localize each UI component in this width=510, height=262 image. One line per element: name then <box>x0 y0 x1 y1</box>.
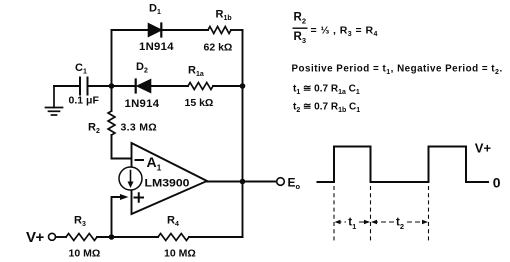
wire D2 to R1a <box>151 85 189 87</box>
wire top rail middle segment <box>161 29 208 31</box>
svg-text:LM3900: LM3900 <box>145 178 190 190</box>
wire output to Eo terminal <box>207 181 277 183</box>
wire right rail <box>242 30 244 237</box>
waveform label t1 <box>348 217 356 232</box>
node A junction dot <box>109 83 115 89</box>
svg-text:3.3 MΩ: 3.3 MΩ <box>121 122 157 134</box>
svg-text:62 kΩ: 62 kΩ <box>204 42 233 54</box>
junction dot output/right rail <box>240 179 246 185</box>
resistor R4 <box>158 215 196 260</box>
svg-text:V+: V+ <box>26 229 45 246</box>
op-amp label LM3900 <box>145 178 190 190</box>
wire bottom rail right <box>189 236 243 238</box>
waveform square wave trace <box>317 147 490 183</box>
diode D2 <box>125 61 160 110</box>
svg-text:1N914: 1N914 <box>139 41 174 53</box>
terminal V+ <box>26 229 56 246</box>
formula positive/negative period <box>292 64 503 77</box>
svg-text:10 MΩ: 10 MΩ <box>164 248 196 260</box>
op-amp current source circle <box>119 167 142 190</box>
resistor R2 <box>88 111 157 135</box>
resistor R3 <box>66 215 100 260</box>
dimension arrows t1 t2 <box>337 221 428 223</box>
wire V+ to R3 <box>56 236 66 238</box>
formula t1 <box>293 84 360 97</box>
wire non-inverting input with arrow <box>112 194 129 237</box>
svg-text:= ⅓ , R3 = R4: = ⅓ , R3 = R4 <box>311 25 378 39</box>
op-amp plus sign <box>135 193 144 202</box>
diode D1 <box>139 3 174 54</box>
terminal Eo <box>277 176 301 192</box>
ground <box>46 86 63 115</box>
wire R1a to right rail <box>213 85 243 87</box>
svg-text:0.1 μF: 0.1 μF <box>69 95 100 107</box>
wire bottom rail middle <box>97 236 158 238</box>
op-amp minus sign <box>136 159 144 161</box>
waveform label 0 <box>493 175 501 191</box>
wire top rail left segment <box>112 29 149 31</box>
formula t2 <box>293 102 360 115</box>
op-amp U1 triangle <box>132 143 208 214</box>
wire node A down to R2 <box>111 86 113 111</box>
op-amp label A1 <box>147 154 162 173</box>
junction dot right rail row 2 <box>240 83 246 89</box>
waveform label V+ <box>475 141 492 156</box>
svg-text:15 kΩ: 15 kΩ <box>185 97 214 109</box>
svg-text:10 MΩ: 10 MΩ <box>69 248 101 260</box>
waveform label t2 <box>396 217 404 232</box>
waveform dashed vertical guides <box>334 186 429 242</box>
capacitor C1 <box>69 62 100 107</box>
junction dot bottom rail <box>109 234 115 240</box>
wire left vertical (node A to top rail) <box>111 30 113 86</box>
resistor R1b <box>204 9 233 54</box>
resistor R1a <box>185 64 214 109</box>
svg-text:1N914: 1N914 <box>125 98 160 110</box>
formula R2/R3 = 1/3, R3 = R4 <box>293 12 378 45</box>
wire ground to C1 <box>54 85 80 87</box>
svg-text:V+: V+ <box>475 141 492 156</box>
wire C1 to node A <box>88 85 136 87</box>
svg-text:t2 ≅ 0.7 R1b C1: t2 ≅ 0.7 R1b C1 <box>293 102 360 115</box>
svg-text:0: 0 <box>493 175 501 191</box>
wire top rail right segment <box>231 29 243 31</box>
svg-text:Positive Period = t1, Negative: Positive Period = t1, Negative Period = … <box>292 64 503 77</box>
wire R2 to inverting input <box>112 135 132 159</box>
svg-text:t1 ≅ 0.7 R1a C1: t1 ≅ 0.7 R1a C1 <box>293 84 360 97</box>
